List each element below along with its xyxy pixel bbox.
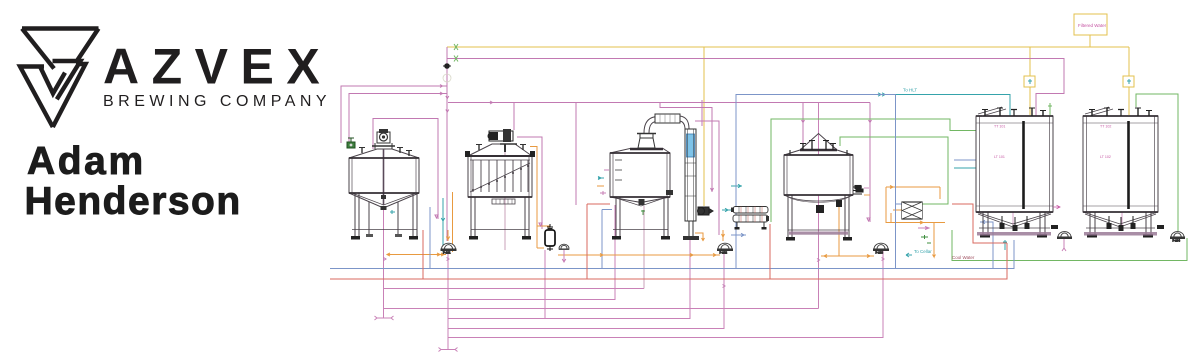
pump P1: [441, 243, 456, 254]
pink bus 5: [448, 252, 724, 329]
pink bus 1: [384, 288, 644, 290]
red hot water bus: [330, 204, 1007, 279]
tank T3 green tick: [641, 210, 645, 215]
tank T6 skid: [1084, 232, 1157, 236]
teal tank1 marks: [390, 210, 395, 214]
tank T2 motor: [488, 129, 518, 152]
svg-text:TT 102: TT 102: [1100, 125, 1111, 129]
pink main vertical x447: [446, 47, 448, 241]
orange run to pump2: [558, 233, 720, 255]
pink bus 3: [384, 308, 819, 310]
tank T3 condenser: [655, 114, 680, 123]
pink feeder loop left: [341, 86, 447, 143]
tank T3 column pump: [698, 207, 714, 215]
pink kettle drop: [643, 206, 645, 289]
teal box feed: [722, 208, 733, 211]
pink tank6 center: [1121, 116, 1123, 230]
tank T6 FV: [1083, 107, 1158, 238]
green cool water loop: [952, 230, 1187, 261]
pink pump1 drop: [447, 250, 449, 350]
teal tank5 marks: [1003, 240, 1007, 250]
tank T5 bottom valves: [1000, 216, 1059, 231]
pink chevrons: [384, 85, 885, 288]
yellow main line: [447, 46, 1129, 48]
green ticks top: [454, 44, 458, 62]
orange pump1 line: [387, 254, 446, 256]
tank T3 left tags: [597, 170, 609, 195]
tank T6 bottom valves: [1107, 216, 1165, 231]
tank T1 side valve green: [347, 138, 355, 148]
pink tank4 center drop: [818, 103, 820, 309]
tank T4 nozzles: [790, 141, 847, 156]
svg-text:P-103: P-103: [876, 250, 884, 254]
orange to-cellar drop: [933, 223, 936, 258]
pink loop tank1: [373, 119, 438, 220]
vessel below T2: [545, 224, 555, 251]
logo top edge: [22, 26, 99, 30]
pink bus 2: [449, 205, 615, 300]
logo left diagonal: [22, 29, 54, 69]
tank T3 column: [683, 129, 699, 240]
green tank4 line low: [840, 137, 948, 204]
pink top line: [447, 59, 1064, 117]
tank T4 whirlpool: [784, 134, 853, 241]
svg-text:LT 102: LT 102: [1100, 155, 1111, 159]
logo lower triangle right: [53, 64, 86, 127]
pink loop tank2 vessel: [517, 137, 542, 229]
pink tank1 drop: [383, 208, 385, 318]
pink HX stub: [918, 227, 929, 230]
pump P2b beside vessel: [559, 244, 570, 250]
yellow drop from box: [1089, 35, 1091, 47]
orange pump4 line: [821, 207, 874, 256]
svg-text:TT 101: TT 101: [994, 125, 1005, 129]
red riser tank1: [423, 204, 610, 279]
svg-text:Filtered Water: Filtered Water: [1078, 23, 1107, 28]
yellow drop tank6: [1128, 47, 1130, 115]
pink drop tank2 motor: [513, 103, 515, 131]
tank T3 kettle: [610, 149, 673, 240]
tank T1 roof nozzles: [362, 148, 409, 156]
tank T1 motor: [372, 129, 395, 149]
pink terminator 2: [439, 348, 458, 352]
svg-text:Cool Water: Cool Water: [952, 255, 975, 260]
pink drop from pump P2b: [562, 250, 566, 262]
green tank6 loop top: [1136, 94, 1178, 231]
pump P5: [1058, 232, 1072, 239]
blue box arrow: [731, 233, 746, 236]
svg-text:P-101: P-101: [443, 250, 451, 254]
red riser box: [769, 224, 771, 279]
svg-text:BREWING COMPANY: BREWING COMPANY: [103, 93, 331, 110]
tank T2 roof nozzles: [479, 145, 523, 150]
blue cold water bus: [330, 240, 1014, 269]
pink bus 6: [448, 250, 883, 338]
svg-text:Adam: Adam: [27, 140, 146, 183]
pink tank2 center: [504, 145, 506, 250]
pink kettle branch: [660, 103, 714, 193]
pump P6: [1171, 232, 1185, 243]
pink drop x576: [575, 103, 577, 206]
tank T6 stripe: [1127, 121, 1130, 209]
pump P2: [718, 243, 733, 254]
tank T5 roof rig: [978, 107, 1006, 116]
tank T5 skid: [977, 232, 1051, 236]
tank T5 HLT: [976, 107, 1053, 238]
HX plate heat exchanger: [902, 202, 922, 219]
tank T4 right fittings: [853, 186, 870, 196]
small HX between kettle and T4: [731, 207, 769, 230]
tank T6 roof rig: [1085, 107, 1113, 116]
orange tank2 drop: [530, 147, 549, 249]
pink mid header: [448, 102, 870, 104]
pink terminator 1: [375, 316, 394, 320]
svg-text:P-102: P-102: [720, 250, 728, 254]
green header high: [771, 119, 976, 222]
tank T3 vapor arc: [644, 117, 657, 134]
svg-text:To HLT: To HLT: [903, 88, 917, 93]
logo z-bar and check: [53, 61, 81, 99]
yellow drop to kettle pump: [703, 47, 705, 206]
blue riser HX: [896, 95, 903, 269]
logo mark AZVEX triangles: [20, 29, 99, 128]
logo lower triangle left: [20, 67, 53, 128]
blue tank5 stub: [954, 159, 978, 161]
orange HX loop: [886, 187, 945, 223]
tank T2 lauter tun: [465, 144, 535, 240]
tank T3 vapor pipe to column: [680, 116, 689, 129]
pink tank5 center: [1012, 116, 1014, 230]
svg-text:Henderson: Henderson: [25, 180, 242, 223]
blue riser tank5: [980, 220, 993, 268]
yellow drop tank5: [1029, 47, 1031, 115]
green tick tank5 top: [1048, 103, 1052, 115]
to-cellar valves: [921, 235, 928, 239]
pink kettle top loop: [695, 100, 719, 235]
tank T5 heating stripe: [1022, 121, 1025, 209]
pink drop tank4 nozzle: [802, 103, 804, 151]
orange chevrons: [387, 186, 923, 258]
teal to-HLT line: [896, 95, 1011, 117]
filtered water box: [1074, 14, 1107, 35]
valve on x447: [443, 63, 451, 82]
tank T1 mash tun: [349, 149, 419, 240]
blue riser tank1: [430, 207, 612, 269]
tank T4 bottom fittings: [816, 205, 824, 213]
svg-text:P-104: P-104: [1173, 238, 1181, 242]
svg-text:AZVEX: AZVEX: [103, 39, 332, 95]
pink drop x870: [869, 103, 871, 223]
pink bus 4: [448, 240, 690, 319]
blue riser kettle: [736, 95, 896, 269]
svg-text:LT 101: LT 101: [994, 155, 1005, 159]
tank T3 manway: [637, 134, 656, 149]
svg-text:To Cellar: To Cellar: [914, 249, 932, 254]
pump P4: [874, 243, 889, 254]
logo inner V: [41, 68, 66, 94]
pink pump5 stub: [1062, 238, 1066, 251]
logo right diagonal: [78, 29, 99, 61]
